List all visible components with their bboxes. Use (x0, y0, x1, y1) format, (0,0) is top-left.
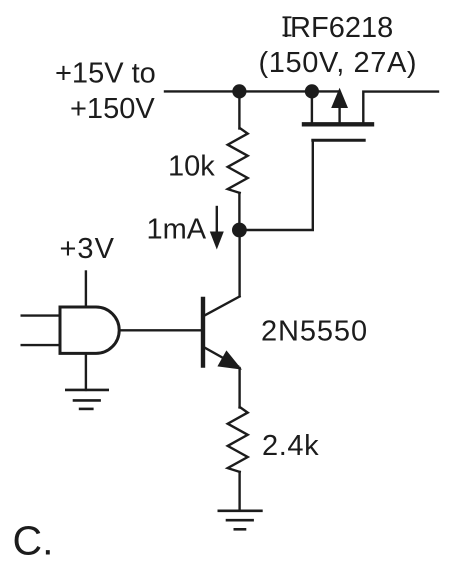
wire gate input 1 (22, 314, 59, 316)
wire +3V supply pin of gate (85, 272, 87, 306)
svg-text:1mA: 1mA (147, 214, 207, 246)
resistor 2.4k (228, 407, 248, 472)
svg-text:IRF6218: IRF6218 (282, 12, 393, 44)
svg-text:(150V, 27A): (150V, 27A) (259, 47, 418, 79)
transistor Q1 MOSFET body arrow (P-channel, pointing up) (331, 88, 348, 108)
svg-text:10k: 10k (168, 151, 215, 183)
svg-text:2N5550: 2N5550 (261, 316, 368, 348)
transistor Q2 2N5550 emitter arrowhead (217, 350, 242, 369)
transistor Q1 MOSFET gate plate (313, 139, 364, 142)
transistor Q1 MOSFET body arrow stem (338, 106, 340, 123)
wire from 10k bottom to node (238, 193, 240, 230)
resistor 10k (228, 128, 248, 193)
current arrow 1mA (pointing down) (216, 207, 218, 235)
node junction dot at 1mA node (232, 223, 247, 238)
transistor Q2 2N5550 emitter diagonal (205, 348, 239, 367)
transistor Q2 2N5550 collector diagonal (205, 297, 240, 316)
wire emitter vertical down to 2.4k (238, 368, 240, 408)
ground (below and-gate) (66, 390, 107, 409)
wire from 2.4k to ground (238, 472, 240, 511)
node junction dot at 10k top (232, 84, 246, 98)
wire collector vertical from node (238, 230, 240, 296)
transistor Q1 MOSFET channel bar (304, 122, 372, 126)
svg-text:+150V: +150V (70, 93, 155, 125)
node junction dot at MOSFET source (305, 84, 319, 98)
transistor Q1 MOSFET IRF6218 source lead (311, 91, 313, 122)
transistor Q2 2N5550 base bar (201, 299, 205, 366)
wire from rail dot down to 10k resistor (238, 91, 240, 128)
svg-text:C.: C. (13, 518, 54, 564)
svg-text:+3V: +3V (60, 233, 115, 265)
ground (below 2.4k) (219, 511, 262, 530)
wire top supply rail right segment (drain output) (363, 92, 438, 123)
wire gate input 2 (22, 344, 59, 346)
wire top supply rail left segment (165, 90, 339, 92)
wire gate output to transistor base (119, 329, 201, 331)
svg-text:2.4k: 2.4k (262, 430, 319, 462)
and-gate U1 (60, 307, 119, 353)
wire gate ground pin (85, 355, 87, 390)
wire gate lead down to node (240, 140, 313, 230)
svg-text:+15V to: +15V to (55, 58, 156, 90)
